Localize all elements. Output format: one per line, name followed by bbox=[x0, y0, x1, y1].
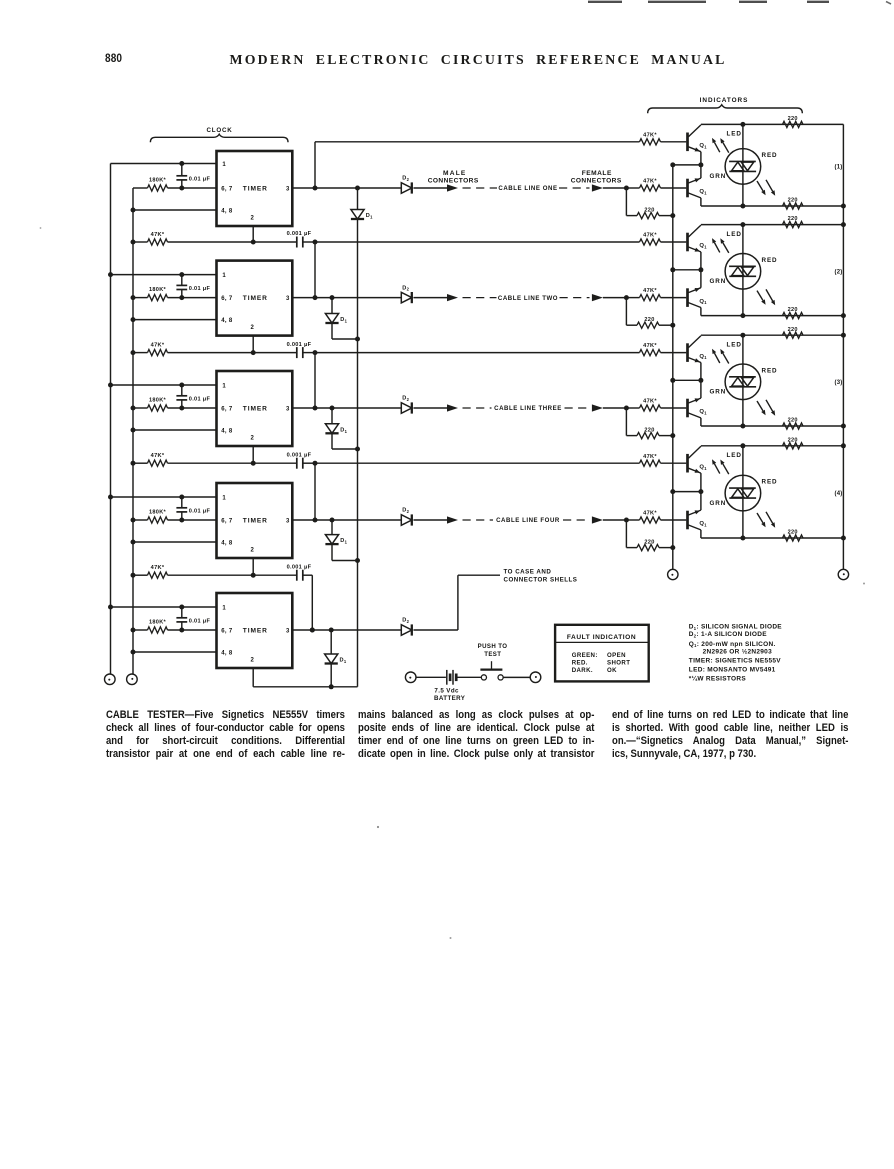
LED light arrows up (indicator 4) bbox=[712, 459, 729, 474]
wire: battery left lead bbox=[416, 676, 446, 678]
wire: timer U4 pins 4,8 row bbox=[131, 540, 217, 545]
wire: timer U3 pin 1 row bbox=[108, 383, 217, 388]
svg-text:2: 2 bbox=[250, 325, 254, 331]
svg-text:1: 1 bbox=[222, 273, 226, 279]
wire: timer U1 pins 4,8 row bbox=[131, 208, 217, 213]
cable line FOUR (dashed) bbox=[463, 517, 590, 524]
svg-text:FEMALE: FEMALE bbox=[582, 170, 612, 177]
svg-text:Q1​: Q1​ bbox=[699, 143, 707, 149]
svg-text:GREEN:: GREEN: bbox=[572, 652, 598, 659]
diode D1 (timer U3) bbox=[325, 406, 357, 450]
wire: battery to push button bbox=[458, 676, 482, 678]
svg-text:FAULT INDICATION: FAULT INDICATION bbox=[567, 634, 636, 641]
resistor 47K* (indicator 4 upper base) bbox=[640, 454, 687, 467]
svg-text:180K*: 180K* bbox=[149, 177, 167, 183]
wire: timer U1 pin 3 up-jog to indicator 1 upper base bbox=[313, 142, 640, 191]
svg-text:PUSH TO: PUSH TO bbox=[478, 643, 508, 650]
svg-text:3: 3 bbox=[286, 628, 290, 634]
svg-text:220: 220 bbox=[644, 317, 654, 323]
cable line ONE (dashed) bbox=[463, 185, 590, 192]
svg-text:D2​: D2​ bbox=[402, 618, 409, 624]
svg-text:MALE: MALE bbox=[443, 170, 466, 177]
svg-text:Q1​: Q1​ bbox=[699, 189, 707, 195]
wire: female connector to line-end node (line 4) bbox=[603, 518, 629, 523]
resistor 47K* (indicator 1 lower base) bbox=[640, 179, 687, 192]
wire: row 2 cap to timer U3 pin 3 jog bbox=[303, 350, 318, 410]
wire: timing bus (left vertical bus B) bbox=[132, 188, 134, 674]
terminal: clock bus B bottom bbox=[127, 674, 138, 685]
wire: timer U2 pin 1 row bbox=[108, 272, 217, 277]
indicators label and brace bbox=[648, 97, 803, 113]
svg-text:3: 3 bbox=[286, 186, 290, 192]
svg-text:(2): (2) bbox=[835, 269, 843, 275]
svg-text:0.001 μF: 0.001 μF bbox=[287, 342, 312, 348]
transistor Q1 upper (indicator 2) bbox=[688, 225, 708, 270]
svg-text:220: 220 bbox=[788, 327, 798, 333]
LED light arrows down (indicator 3) bbox=[757, 400, 775, 416]
svg-text:TIMER: TIMER bbox=[243, 627, 268, 634]
svg-text:CONNECTORS: CONNECTORS bbox=[571, 177, 622, 184]
wire: female connector to line-end node (line 2) bbox=[603, 295, 629, 300]
svg-text:D1​: D1​ bbox=[340, 427, 347, 433]
svg-text:CABLE LINE FOUR: CABLE LINE FOUR bbox=[496, 517, 560, 524]
wire: timer U1 pin 1 row bbox=[111, 161, 217, 166]
timer U1 (NE555V) box bbox=[217, 151, 293, 226]
svg-text:TEST: TEST bbox=[484, 651, 501, 658]
svg-text:4, 8: 4, 8 bbox=[221, 208, 233, 214]
resistor 220 (line 4 to emitter bus) bbox=[626, 520, 675, 551]
svg-text:GRN: GRN bbox=[710, 278, 727, 285]
timer U4 (NE555V) box bbox=[217, 483, 293, 558]
svg-text:220: 220 bbox=[644, 428, 654, 434]
wire: indicator 1 bottom rail bbox=[701, 204, 844, 209]
resistor 180K* (timer U1 pins 6,7) bbox=[133, 177, 217, 191]
svg-text:SHORT: SHORT bbox=[607, 660, 630, 667]
resistor 47K* (trigger row 1) bbox=[131, 232, 297, 245]
svg-text:2: 2 bbox=[250, 657, 254, 663]
svg-text:6, 7: 6, 7 bbox=[221, 186, 233, 192]
svg-text:3: 3 bbox=[286, 296, 290, 302]
LED light arrows down (indicator 1) bbox=[757, 180, 775, 196]
wire: row 1 cap to timer U2 pin 3 jog bbox=[303, 240, 318, 301]
wire: timer U1 pin 3 output bbox=[292, 187, 401, 189]
svg-text:D1​: D1​ bbox=[366, 213, 373, 219]
wire: timer U3 pin 2 stub bbox=[251, 446, 256, 466]
svg-text:Q1​: Q1​ bbox=[699, 243, 707, 249]
wire: line-end node to lower 47K (line 3) bbox=[626, 407, 639, 409]
resistor 220 (line 3 to emitter bus) bbox=[626, 408, 675, 439]
wire: D2 to male connector (line 3) bbox=[414, 407, 448, 409]
capacitor 0.01uF (timer U4) bbox=[176, 497, 210, 520]
wire: indicator right rail (vertical) bbox=[841, 124, 846, 569]
svg-text:RED: RED bbox=[762, 479, 778, 486]
svg-text:CABLE LINE ONE: CABLE LINE ONE bbox=[498, 185, 557, 192]
svg-text:220: 220 bbox=[788, 307, 798, 313]
LED MV5491 dual (indicator 4) bbox=[725, 446, 761, 538]
svg-text:INDICATORS: INDICATORS bbox=[700, 97, 749, 104]
wire: indicator 2 top rail bbox=[701, 222, 844, 227]
wire: indicator 3 top rail bbox=[701, 333, 844, 338]
wire: line-end node to lower 47K (line 4) bbox=[626, 519, 639, 521]
wire: timer U5 pin 2 to bottom return bbox=[253, 668, 357, 687]
capacitor 0.001uF (row 2) bbox=[287, 342, 312, 358]
svg-text:220: 220 bbox=[788, 530, 798, 536]
label: MALE CONNECTORS bbox=[428, 170, 479, 185]
diode D1 (timer U5) bbox=[325, 628, 347, 690]
wire: emitter return bus (vertical) bbox=[670, 162, 675, 569]
terminal: emitter bus bottom bbox=[668, 569, 678, 579]
svg-text:180K*: 180K* bbox=[149, 397, 167, 403]
diode D2 (line 1) bbox=[401, 176, 412, 194]
page number 880 bbox=[105, 51, 122, 65]
svg-text:LED: MONSANTO MV5491: LED: MONSANTO MV5491 bbox=[689, 667, 776, 674]
svg-text:47K*: 47K* bbox=[151, 232, 165, 238]
svg-text:GRN: GRN bbox=[710, 389, 727, 396]
resistor 220 (indicator 3 bottom rail) bbox=[783, 418, 804, 430]
capacitor 0.001uF (row 1) bbox=[287, 231, 312, 247]
svg-text:DARK.: DARK. bbox=[572, 667, 593, 674]
svg-text:220: 220 bbox=[788, 116, 798, 122]
capacitor 0.01uF (timer U1) bbox=[176, 164, 210, 189]
svg-text:TO CASE AND: TO CASE AND bbox=[504, 569, 552, 576]
cable line TWO (dashed) bbox=[463, 295, 590, 302]
svg-text:2N2926 OR ½2N2903: 2N2926 OR ½2N2903 bbox=[703, 647, 773, 655]
timer U2 (NE555V) box bbox=[217, 261, 293, 336]
wire: indicator 3 bottom rail bbox=[701, 424, 844, 429]
timer U3 (NE555V) box bbox=[217, 371, 293, 446]
wire: indicator 4 bottom rail bbox=[701, 536, 844, 541]
resistor 47K* (indicator 2 lower base) bbox=[640, 288, 687, 301]
wire: D2 to case/shells riser bbox=[414, 575, 501, 630]
wire: D2 to male connector (line 4) bbox=[414, 519, 448, 521]
timer U5 (NE555V) box bbox=[217, 593, 293, 668]
svg-text:220: 220 bbox=[788, 198, 798, 204]
diode D2 (line 2) bbox=[401, 285, 412, 303]
resistor 220 (indicator 2 top rail) bbox=[783, 216, 804, 228]
wire: timer U4 pin 1 row bbox=[108, 495, 217, 500]
wire: indicator 4 top rail bbox=[701, 443, 844, 448]
svg-text:180K*: 180K* bbox=[149, 619, 167, 625]
resistor 220 (indicator 4 bottom rail) bbox=[783, 530, 804, 542]
svg-text:47K*: 47K* bbox=[643, 288, 657, 294]
svg-text:0.001 μF: 0.001 μF bbox=[287, 452, 312, 458]
svg-text:*¼W RESISTORS: *¼W RESISTORS bbox=[689, 674, 747, 682]
wire: timer U4 pin 3 output bbox=[292, 519, 401, 521]
svg-text:1: 1 bbox=[222, 162, 226, 168]
terminal: right rail bottom bbox=[838, 569, 848, 579]
svg-text:47K*: 47K* bbox=[643, 511, 657, 517]
wire: timer U3 pins 4,8 row bbox=[131, 428, 217, 433]
wire: D2 to male connector (line 1) bbox=[414, 187, 448, 189]
svg-text:4, 8: 4, 8 bbox=[221, 428, 233, 434]
svg-text:1: 1 bbox=[222, 605, 226, 611]
push-button PUSH TO TEST bbox=[478, 643, 508, 680]
resistor 180K* (timer U2 pins 6,7) bbox=[131, 287, 217, 301]
wire: timer U4 pin 2 stub bbox=[251, 558, 256, 578]
svg-text:LED: LED bbox=[727, 131, 742, 138]
resistor 180K* (timer U5 pins 6,7) bbox=[131, 619, 217, 633]
resistor 47K* (trigger row 2) bbox=[131, 342, 297, 355]
svg-text:220: 220 bbox=[644, 540, 654, 546]
svg-text:TIMER: TIMER bbox=[243, 517, 268, 524]
svg-text:(3): (3) bbox=[835, 380, 843, 386]
capacitor 0.001uF (row 3) bbox=[287, 452, 312, 468]
svg-text:47K*: 47K* bbox=[643, 233, 657, 239]
svg-text:47K*: 47K* bbox=[643, 454, 657, 460]
resistor 47K* (indicator 3 lower base) bbox=[640, 399, 687, 412]
svg-text:47K*: 47K* bbox=[643, 399, 657, 405]
caption column 3 bbox=[612, 709, 848, 761]
wire: timer U2 pins 4,8 row bbox=[131, 317, 217, 322]
svg-text:4, 8: 4, 8 bbox=[221, 318, 233, 324]
svg-text:6, 7: 6, 7 bbox=[221, 628, 233, 634]
diode D2 (timer U5) bbox=[401, 618, 412, 636]
svg-text:RED.: RED. bbox=[572, 660, 588, 667]
resistor 47K* (trigger row 4) bbox=[131, 565, 297, 578]
scan artifact: clipped text dashes at top edge bbox=[588, 2, 891, 5]
svg-text:6, 7: 6, 7 bbox=[221, 406, 233, 412]
capacitor 0.001uF (row 4) bbox=[287, 564, 312, 580]
LED light arrows up (indicator 1) bbox=[712, 138, 729, 153]
svg-text:LED: LED bbox=[727, 341, 742, 348]
female connector arrow (line 1) bbox=[592, 184, 603, 191]
transistor Q1 upper (indicator 1) bbox=[688, 125, 708, 165]
svg-text:BATTERY: BATTERY bbox=[434, 695, 466, 702]
svg-text:TIMER: TIMER bbox=[243, 405, 268, 412]
svg-text:(1): (1) bbox=[835, 164, 843, 170]
transistor Q1 lower (indicator 2) bbox=[688, 270, 708, 316]
svg-text:TIMER: TIMER bbox=[243, 185, 268, 192]
svg-text:TIMER: TIMER bbox=[243, 295, 268, 302]
wire: pin-1 bus (left vertical bus A) bbox=[110, 164, 112, 674]
svg-text:LED: LED bbox=[727, 452, 742, 459]
wire: female connector to line-end node (line 3) bbox=[603, 406, 629, 411]
svg-text:47K*: 47K* bbox=[643, 132, 657, 138]
wire: female connector to line-end node (line 1) bbox=[603, 186, 629, 191]
wire: line-end node to lower 47K (line 2) bbox=[626, 297, 639, 299]
transistor Q1 lower (indicator 1) bbox=[688, 165, 708, 206]
svg-text:Q1​: Q1​ bbox=[699, 354, 707, 360]
svg-text:1: 1 bbox=[222, 495, 226, 501]
male connector arrow (line 2) bbox=[447, 294, 458, 301]
resistor 220 (line 1 to emitter bus) bbox=[626, 188, 675, 219]
LED light arrows up (indicator 3) bbox=[712, 349, 729, 364]
transistor Q1 lower (indicator 4) bbox=[688, 492, 708, 538]
diode D2 (line 4) bbox=[401, 508, 412, 526]
svg-text:CONNECTOR SHELLS: CONNECTOR SHELLS bbox=[504, 576, 578, 583]
svg-text:0.01 μF: 0.01 μF bbox=[189, 286, 211, 292]
resistor 47K* (indicator 2 upper base) bbox=[640, 233, 687, 246]
resistor 220 (indicator 1 top rail) bbox=[783, 116, 804, 128]
parts legend bbox=[689, 624, 783, 683]
svg-text:2: 2 bbox=[250, 215, 254, 221]
resistor 180K* (timer U4 pins 6,7) bbox=[131, 509, 217, 523]
resistor 47K* (indicator 3 upper base) bbox=[640, 343, 687, 356]
wire: indicator 2 bottom rail bbox=[701, 313, 844, 318]
transistor Q1 upper (indicator 3) bbox=[688, 336, 708, 381]
svg-text:D1​: D1​ bbox=[340, 538, 347, 544]
cable line THREE (dashed) bbox=[463, 405, 590, 412]
female connector arrow (line 3) bbox=[592, 404, 603, 411]
svg-text:180K*: 180K* bbox=[149, 287, 167, 293]
terminal: battery left bbox=[405, 672, 416, 683]
LED light arrows down (indicator 4) bbox=[757, 512, 775, 528]
svg-text:D1​: D1​ bbox=[340, 658, 347, 664]
running head title bbox=[230, 52, 727, 68]
label: TO CASE AND CONNECTOR SHELLS bbox=[504, 569, 578, 584]
svg-text:D2​: 1-A SILICON DIODE: D2​: 1-A SILICON DIODE bbox=[689, 631, 767, 638]
wire: row 4 cap to timer U5 pin 3 jog bbox=[303, 575, 315, 632]
male connector arrow (line 3) bbox=[447, 404, 458, 411]
svg-text:47K*: 47K* bbox=[643, 179, 657, 185]
svg-text:LED: LED bbox=[727, 231, 742, 238]
svg-text:4, 8: 4, 8 bbox=[221, 650, 233, 656]
caption column 2 bbox=[358, 709, 594, 761]
wire: row 3 cap to timer U4 pin 3 jog bbox=[303, 461, 318, 523]
wire: timer U5 pin 1 row bbox=[108, 605, 217, 610]
svg-text:180K*: 180K* bbox=[149, 509, 167, 515]
female connector arrow (line 4) bbox=[592, 516, 603, 523]
svg-text:OPEN: OPEN bbox=[607, 652, 626, 659]
svg-text:Q1​: Q1​ bbox=[699, 464, 707, 470]
resistor 220 (indicator 1 bottom rail) bbox=[783, 198, 804, 210]
svg-text:CABLE LINE TWO: CABLE LINE TWO bbox=[498, 295, 558, 302]
svg-text:0.01 μF: 0.01 μF bbox=[189, 508, 211, 514]
transistor Q1 upper (indicator 4) bbox=[688, 446, 708, 491]
node: emitter junction (indicator 2) bbox=[673, 267, 704, 272]
resistor 47K* (indicator 4 lower base) bbox=[640, 511, 687, 524]
battery 7.5 Vdc bbox=[434, 670, 466, 702]
svg-text:3: 3 bbox=[286, 406, 290, 412]
wire: D2 to male connector (line 2) bbox=[414, 297, 448, 299]
LED MV5491 dual (indicator 1) bbox=[725, 124, 761, 206]
wire: timer U2 pin 2 stub bbox=[251, 336, 256, 356]
svg-text:0.001 μF: 0.001 μF bbox=[287, 564, 312, 570]
svg-text:0.01 μF: 0.01 μF bbox=[189, 618, 211, 624]
resistor 220 (indicator 4 top rail) bbox=[783, 437, 804, 449]
svg-text:47K*: 47K* bbox=[151, 453, 165, 459]
caption column 1 bbox=[106, 709, 345, 761]
wire: timer U5 pin 3 output bbox=[292, 628, 401, 633]
wire: line-end node to lower 47K (line 1) bbox=[626, 187, 639, 189]
svg-text:3: 3 bbox=[286, 518, 290, 524]
transistor Q1 lower (indicator 3) bbox=[688, 380, 708, 426]
svg-text:D2​: D2​ bbox=[402, 285, 409, 291]
diode D2 (line 3) bbox=[401, 396, 412, 414]
resistor 47K* (indicator 1 upper base) bbox=[640, 132, 687, 145]
svg-text:RED: RED bbox=[762, 257, 778, 264]
wire: timer U1 pin 2 stub bbox=[251, 226, 256, 245]
node: emitter junction (indicator 1) bbox=[673, 162, 704, 167]
wire: D1 return bus (long vertical) bbox=[355, 186, 360, 687]
wire: row 3 to indicator 4 upper base bbox=[315, 462, 640, 464]
svg-text:RED: RED bbox=[762, 152, 778, 159]
svg-text:GRN: GRN bbox=[710, 500, 727, 507]
svg-text:0.01 μF: 0.01 μF bbox=[189, 396, 211, 402]
svg-text:(4): (4) bbox=[835, 491, 843, 497]
wire: indicator 1 top rail bbox=[701, 122, 844, 127]
svg-text:Q1​: Q1​ bbox=[699, 409, 707, 415]
svg-text:CABLE LINE THREE: CABLE LINE THREE bbox=[494, 405, 562, 412]
resistor 180K* (timer U3 pins 6,7) bbox=[131, 397, 217, 411]
svg-text:47K*: 47K* bbox=[643, 343, 657, 349]
wire: timer U2 pin 3 output bbox=[292, 297, 401, 299]
wire: row 2 to indicator 3 upper base bbox=[315, 352, 640, 354]
female connector arrow (line 2) bbox=[592, 294, 603, 301]
capacitor 0.01uF (timer U2) bbox=[176, 275, 210, 298]
wire: row 1 to indicator 2 upper base bbox=[315, 241, 640, 243]
svg-text:7.5 Vdc: 7.5 Vdc bbox=[434, 687, 459, 694]
terminal: clock bus A bottom bbox=[105, 674, 116, 685]
svg-text:D2​: D2​ bbox=[402, 396, 409, 402]
diode D1 (timer U1) bbox=[351, 210, 373, 220]
LED MV5491 dual (indicator 2) bbox=[725, 225, 761, 316]
svg-text:TIMER: SIGNETICS NE555V: TIMER: SIGNETICS NE555V bbox=[689, 658, 782, 665]
terminal: battery right bbox=[530, 672, 541, 683]
fault indication table bbox=[555, 625, 649, 682]
svg-text:D1​: SILICON SIGNAL DIODE: D1​: SILICON SIGNAL DIODE bbox=[689, 624, 783, 631]
svg-text:OK: OK bbox=[607, 667, 617, 674]
svg-text:D2​: D2​ bbox=[402, 508, 409, 514]
svg-text:CLOCK: CLOCK bbox=[207, 127, 233, 134]
svg-text:D1​: D1​ bbox=[340, 317, 347, 323]
svg-text:CONNECTORS: CONNECTORS bbox=[428, 177, 479, 184]
svg-text:220: 220 bbox=[644, 208, 654, 214]
svg-text:1: 1 bbox=[222, 383, 226, 389]
svg-text:Q1​: Q1​ bbox=[699, 521, 707, 527]
svg-text:47K*: 47K* bbox=[151, 565, 165, 571]
svg-text:47K*: 47K* bbox=[151, 342, 165, 348]
capacitor 0.01uF (timer U5) bbox=[176, 607, 210, 630]
svg-text:Q1​: Q1​ bbox=[699, 299, 707, 305]
svg-text:D2​: D2​ bbox=[402, 176, 409, 182]
resistor 47K* (trigger row 3) bbox=[131, 453, 297, 466]
node: emitter junction (indicator 4) bbox=[673, 489, 704, 494]
svg-text:220: 220 bbox=[788, 216, 798, 222]
resistor 220 (indicator 3 top rail) bbox=[783, 327, 804, 339]
svg-text:220: 220 bbox=[788, 437, 798, 443]
node: emitter junction (indicator 3) bbox=[673, 378, 704, 383]
wire: timer U3 pin 3 output bbox=[292, 407, 401, 409]
diode D1 (timer U2) bbox=[325, 295, 357, 339]
svg-text:GRN: GRN bbox=[710, 173, 727, 180]
scan specks bbox=[40, 227, 865, 939]
svg-text:4, 8: 4, 8 bbox=[221, 540, 233, 546]
wire: timer U5 pins 4,8 row bbox=[131, 650, 217, 655]
LED MV5491 dual (indicator 3) bbox=[725, 335, 761, 426]
svg-text:RED: RED bbox=[762, 367, 778, 374]
label: FEMALE CONNECTORS bbox=[571, 170, 622, 185]
capacitor 0.01uF (timer U3) bbox=[176, 385, 210, 408]
clock section label and brace bbox=[150, 127, 288, 142]
male connector arrow (line 4) bbox=[447, 516, 458, 523]
resistor 220 (indicator 2 bottom rail) bbox=[783, 307, 804, 319]
svg-text:2: 2 bbox=[250, 547, 254, 553]
svg-text:6, 7: 6, 7 bbox=[221, 296, 233, 302]
svg-text:6, 7: 6, 7 bbox=[221, 518, 233, 524]
svg-text:0.01 μF: 0.01 μF bbox=[189, 176, 211, 182]
male connector arrow (line 1) bbox=[447, 184, 458, 191]
wire: push button to right terminal bbox=[503, 676, 530, 678]
LED light arrows up (indicator 2) bbox=[712, 238, 729, 253]
svg-text:2: 2 bbox=[250, 435, 254, 441]
svg-text:Q1​: 200-mW npn SILICON.: Q1​: 200-mW npn SILICON. bbox=[689, 641, 776, 648]
resistor 220 (line 2 to emitter bus) bbox=[626, 298, 675, 329]
svg-text:0.001 μF: 0.001 μF bbox=[287, 231, 312, 237]
svg-text:220: 220 bbox=[788, 418, 798, 424]
LED light arrows down (indicator 2) bbox=[757, 289, 775, 305]
diode D1 (timer U4) bbox=[325, 518, 357, 561]
